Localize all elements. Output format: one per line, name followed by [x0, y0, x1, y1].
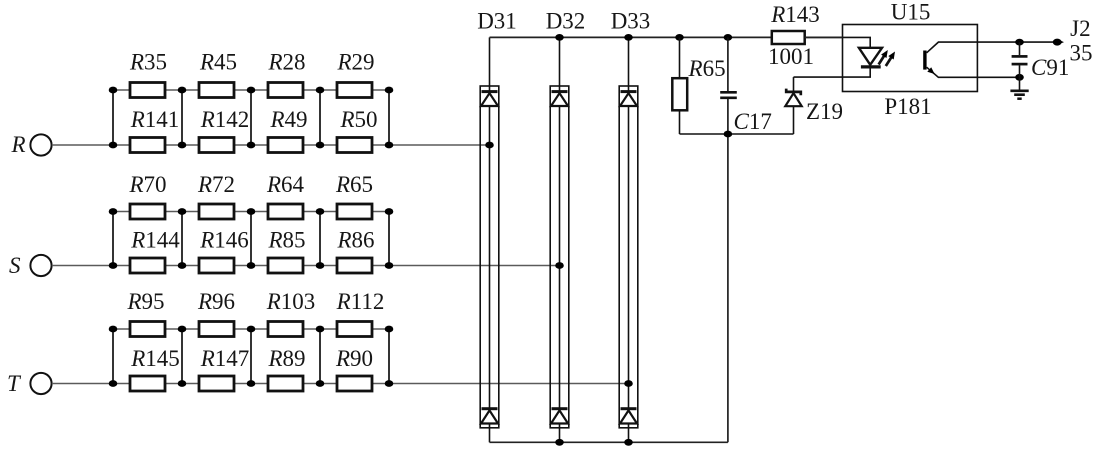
svg-text:J2: J2 [1070, 16, 1090, 41]
svg-text:R144: R144 [130, 228, 180, 253]
svg-text:C17: C17 [734, 109, 772, 134]
svg-text:R142: R142 [200, 107, 250, 132]
svg-text:T: T [7, 371, 22, 396]
svg-text:R70: R70 [128, 172, 166, 197]
svg-text:R28: R28 [267, 50, 305, 75]
svg-text:R65: R65 [688, 56, 726, 81]
svg-text:R112: R112 [336, 289, 385, 314]
svg-text:R45: R45 [199, 50, 237, 75]
svg-text:R96: R96 [197, 289, 235, 314]
svg-text:R72: R72 [197, 172, 235, 197]
svg-text:Z19: Z19 [806, 99, 843, 124]
svg-text:R141: R141 [130, 107, 180, 132]
svg-text:R49: R49 [269, 107, 307, 132]
svg-text:R35: R35 [129, 50, 167, 75]
svg-text:R29: R29 [336, 50, 374, 75]
svg-text:R147: R147 [200, 346, 250, 371]
svg-text:1001: 1001 [768, 44, 814, 69]
svg-text:D32: D32 [546, 8, 586, 33]
svg-text:R85: R85 [267, 228, 305, 253]
svg-text:R: R [11, 132, 26, 157]
svg-text:R103: R103 [266, 289, 316, 314]
svg-text:D31: D31 [477, 8, 517, 33]
svg-text:P181: P181 [884, 94, 931, 119]
svg-text:R50: R50 [339, 107, 377, 132]
svg-text:R64: R64 [266, 172, 305, 197]
svg-text:C91: C91 [1031, 55, 1069, 80]
svg-text:35: 35 [1070, 41, 1093, 66]
svg-text:R86: R86 [336, 228, 374, 253]
svg-text:R89: R89 [267, 346, 305, 371]
svg-text:R95: R95 [126, 289, 164, 314]
svg-text:R90: R90 [335, 346, 373, 371]
svg-text:R146: R146 [199, 228, 249, 253]
svg-text:R145: R145 [130, 346, 180, 371]
svg-text:U15: U15 [891, 0, 931, 24]
svg-text:D33: D33 [611, 8, 651, 33]
svg-text:R143: R143 [770, 2, 820, 27]
svg-text:R65: R65 [335, 172, 373, 197]
svg-text:S: S [9, 253, 21, 278]
